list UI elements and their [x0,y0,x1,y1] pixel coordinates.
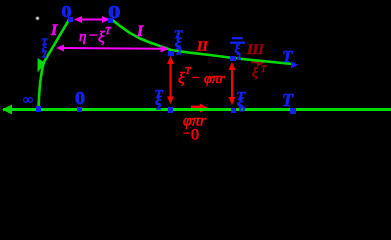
svg-text:2: 2 [156,102,161,112]
svg-text:2: 2 [42,50,47,60]
svg-text:II: II [196,39,209,54]
svg-text:b: b [239,103,246,114]
svg-text:−: − [183,126,190,141]
svg-text:ξ: ξ [98,29,105,46]
label stack E right of axis marker 2 [236,89,246,115]
node marker under first 0 [68,17,73,22]
label stack B above first curve point [174,27,184,57]
svg-text:−: − [89,28,97,44]
wire: right branch, decaying green curve [111,19,292,64]
node marker on axis under arrow 1 [168,107,173,113]
blue arrowhead at curve end [291,61,299,68]
long magenta double arrow at y=48 [56,45,169,53]
magenta double arrow between the two 0 markers [74,16,110,23]
node marker on curve point 2 [230,56,236,61]
node marker under second 0 [108,18,113,23]
red vertical double arrow 2 [229,62,236,105]
svg-text:I: I [136,23,144,40]
svg-text:2: 2 [176,46,183,57]
node marker on curve point 1 [168,51,174,56]
svg-text:η: η [79,29,86,45]
red arrow pointing right on axis (under the axis) [191,104,209,113]
svg-text:T: T [282,90,294,110]
red vertical double arrow 1 (between curve point 1 and axis) [167,56,174,104]
formula xi^T - phi gamma r (red) [178,66,225,87]
label eta minus xi^T (magenta) [79,26,112,46]
node marker on axis under arrow 2 [231,108,236,113]
node marker on axis at T [290,108,296,114]
white dot [35,16,39,20]
label stack C on axis left of arrow 1 [154,86,164,112]
maroon arrow on curve pointing right (under the curve) [251,59,265,67]
label xi^T (maroon) [252,64,267,81]
svg-text:0: 0 [191,127,199,144]
svg-text:T: T [282,47,293,66]
svg-text:∞: ∞ [23,93,33,108]
svg-text:I: I [50,22,58,39]
svg-text:φπr: φπr [204,71,225,87]
label stack A: T over xi over 2 (blue, left of steep branch) [42,38,49,60]
node marker axis at curve crossing [36,106,41,112]
wire: left branch of curve (steep green line with mid arrowhead) [38,18,71,109]
svg-text:2: 2 [237,52,242,62]
label stack D above second curve point (with overbar) [230,37,245,62]
svg-text:0: 0 [75,88,85,108]
label minus zero (red) [183,126,199,144]
marker for axis 0 [77,107,82,112]
svg-text:ξ: ξ [178,70,185,87]
svg-text:−: − [192,71,200,86]
x-axis (green horizontal line with left arrowhead) [2,105,391,115]
svg-text:III: III [246,42,265,58]
svg-text:ξ: ξ [252,66,258,81]
